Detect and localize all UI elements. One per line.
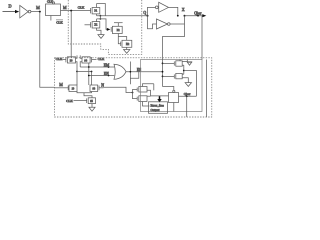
svg-text:94: 94 (93, 87, 96, 90)
inverter U2 (upper, input bubble) (155, 2, 177, 15)
ground under N2 (124, 50, 130, 54)
svg-text:Qbar: Qbar (194, 11, 202, 15)
svg-text:EM: EM (104, 63, 110, 67)
feedback wire Qbar down right side (201, 16, 203, 60)
vdd/gnd symbol top right (187, 62, 192, 65)
wire X to Qbar output (185, 15, 204, 17)
transistor MB2 (mirrored) (90, 85, 104, 92)
wire MRa up right (153, 84, 155, 91)
svg-text:M: M (36, 5, 40, 10)
vertical cross-MB2 (91, 72, 93, 86)
node RT out (183, 70, 185, 72)
node cross right (91, 71, 93, 73)
svg-text:95: 95 (90, 100, 93, 103)
label CLK above TG (47, 0, 55, 4)
ground under X1 (98, 35, 104, 39)
wire Qbar down (186, 96, 188, 117)
VDD bar P2 (114, 22, 123, 24)
wire slave row lower (97, 19, 108, 30)
wire RT out down to Qbar node (184, 71, 197, 97)
output arrowhead (202, 14, 206, 17)
label CLKbar (56, 20, 63, 25)
transistor CLK3 (74, 98, 96, 107)
svg-text:30: 30 (70, 59, 73, 62)
wire Q to lower inverter input (148, 16, 157, 29)
OR gate G1 (114, 64, 126, 79)
dashed box A (master keeper) (68, 0, 142, 54)
svg-text:Output: Output (151, 108, 160, 112)
output tap arrow (157, 96, 161, 102)
ground under CLK3 (89, 107, 95, 111)
vertical RT drains (183, 65, 185, 74)
node Qbar internal (186, 95, 188, 97)
transistor TL2 (mirrored) (80, 55, 96, 67)
wire slave row upper (to Q) (97, 15, 148, 17)
svg-text:N: N (101, 83, 104, 87)
node EN-chain (88, 75, 90, 77)
wire Q up to U2 input (148, 7, 156, 15)
solid box around output stage (141, 60, 203, 112)
transistor RTb (163, 73, 189, 82)
svg-text:X1: X1 (94, 24, 98, 27)
svg-text:M: M (59, 82, 63, 87)
node j1 (162, 63, 164, 65)
svg-text:D: D (8, 3, 11, 8)
transistor N2 (118, 37, 132, 50)
transistor MRa (133, 84, 154, 96)
node EM (108, 66, 110, 68)
vertical TL2 chain (88, 63, 90, 85)
svg-text:X: X (182, 7, 185, 12)
svg-text:CLK: CLK (78, 6, 85, 10)
node slave row upper (100, 15, 102, 17)
svg-text:94: 94 (84, 59, 87, 62)
node Q (147, 15, 149, 17)
node X join (177, 15, 179, 17)
wire Qbar row (179, 95, 197, 97)
node j2 (162, 71, 164, 73)
vertical ES/feedback node line (162, 58, 164, 87)
svg-text:EN: EN (104, 72, 109, 76)
svg-text:M: M (63, 5, 67, 10)
node on Qbar wire (197, 15, 199, 17)
inverter U3 (lower) (157, 19, 185, 29)
wire ES (126, 71, 163, 73)
node j3 (162, 76, 164, 78)
wire M down to bottom box (40, 12, 55, 88)
wire M2 down into box B (70, 11, 72, 58)
cross wire (77, 71, 92, 73)
svg-text:Qbar: Qbar (184, 92, 191, 96)
transistor P1 (91, 4, 100, 16)
svg-text:P1: P1 (94, 10, 97, 13)
transistor RTa (163, 60, 188, 67)
wire error-free output row (151, 95, 169, 97)
box Q (output keeper) (169, 93, 179, 103)
node EM-chain (88, 66, 90, 68)
node M (39, 11, 41, 13)
transistor TL1 (63, 55, 78, 71)
rail P1 top (97, 4, 106, 16)
box Error_free Output (149, 102, 168, 114)
svg-text:N2: N2 (126, 43, 130, 46)
transistor X1 (85, 19, 102, 35)
wire MB bottoms join (77, 92, 92, 93)
stem to CLK3 nmos (84, 93, 92, 98)
feedback wire X down to ES block (163, 16, 185, 58)
ground under RTb (185, 83, 191, 87)
input arrow D (3, 10, 20, 13)
node EN (108, 75, 110, 77)
svg-text:CLK: CLK (56, 57, 63, 61)
svg-text:10: 10 (72, 87, 75, 90)
transistor P2 with gate arrow (107, 23, 122, 44)
node M2 (70, 10, 72, 12)
node ES branch (130, 71, 132, 73)
dashed box B (bottom) (55, 58, 212, 117)
node slave row lower (100, 18, 102, 20)
wire EN (89, 75, 115, 77)
bubble on box Q (173, 90, 175, 92)
branch ES down (129, 62, 131, 85)
vertical TL1-MB1 (76, 72, 78, 86)
svg-text:P2: P2 (117, 29, 120, 32)
stem under box Q (173, 103, 175, 112)
wire EM (80, 66, 114, 68)
svg-text:Error_free: Error_free (151, 103, 165, 107)
node X (184, 15, 186, 17)
inverter U1 (20, 5, 40, 18)
label Error_free Output (151, 103, 165, 111)
transistor MB1 (55, 85, 78, 92)
transmission gate box TG (46, 4, 61, 16)
svg-text:CLK: CLK (98, 57, 105, 61)
wire to C-box bubble (163, 87, 174, 91)
wire CLKbar below TG (50, 16, 52, 21)
wire MB2 gate to MR gates (104, 87, 133, 92)
svg-text:CLK: CLK (66, 99, 73, 103)
stub wiring right of OR (130, 72, 138, 79)
extra rail right (205, 60, 207, 118)
node MR gate (132, 92, 134, 94)
transistor MRb (133, 93, 151, 107)
svg-text:CLK: CLK (56, 20, 63, 24)
wire TG output to P1 gate (61, 10, 91, 12)
svg-text:Q: Q (143, 11, 146, 15)
node TL1 drain (76, 71, 78, 73)
